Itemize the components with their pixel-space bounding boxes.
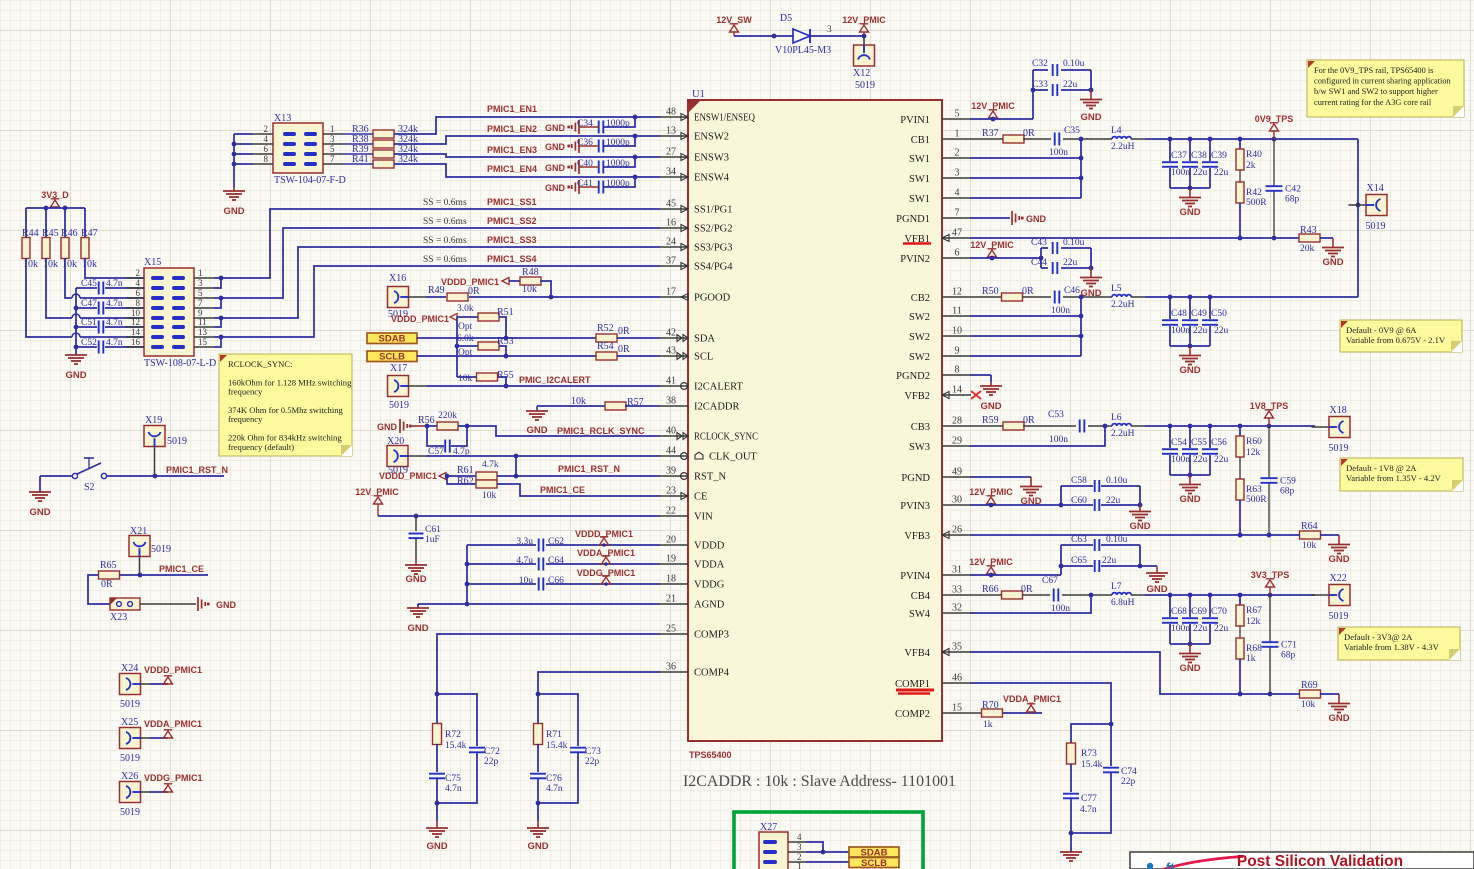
svg-text:PMIC1_CE: PMIC1_CE bbox=[159, 564, 204, 574]
svg-text:PGND: PGND bbox=[901, 473, 930, 484]
svg-text:3: 3 bbox=[198, 278, 203, 288]
svg-text:5: 5 bbox=[198, 288, 203, 298]
svg-text:30: 30 bbox=[952, 495, 962, 506]
svg-text:8: 8 bbox=[264, 154, 269, 164]
svg-text:C48: C48 bbox=[1171, 309, 1187, 319]
svg-text:VDDG_PMIC1: VDDG_PMIC1 bbox=[144, 773, 203, 783]
svg-text:22u: 22u bbox=[1193, 455, 1208, 465]
svg-text:R59: R59 bbox=[982, 415, 999, 426]
svg-text:23: 23 bbox=[666, 486, 676, 497]
svg-text:PMIC1_EN3: PMIC1_EN3 bbox=[487, 145, 537, 155]
svg-text:6: 6 bbox=[264, 144, 269, 154]
svg-text:SCLB: SCLB bbox=[861, 858, 887, 869]
svg-text:3.3u: 3.3u bbox=[516, 537, 533, 547]
svg-text:5019: 5019 bbox=[1329, 611, 1349, 622]
svg-text:45: 45 bbox=[666, 199, 676, 210]
svg-text:PMIC_I2CALERT: PMIC_I2CALERT bbox=[519, 375, 591, 385]
svg-text:PVIN4: PVIN4 bbox=[900, 571, 931, 582]
svg-text:C54: C54 bbox=[1171, 438, 1187, 448]
svg-text:35: 35 bbox=[952, 642, 962, 653]
svg-text:C46: C46 bbox=[1064, 286, 1080, 296]
svg-text:C41: C41 bbox=[577, 179, 593, 189]
svg-text:GND: GND bbox=[526, 425, 547, 436]
svg-text:R66: R66 bbox=[982, 584, 999, 595]
svg-text:2k: 2k bbox=[1246, 161, 1256, 171]
svg-text:I2CADDR : 10k : Slave Address-: I2CADDR : 10k : Slave Address- 1101001 bbox=[683, 773, 956, 790]
svg-text:configured in current sharing: configured in current sharing applicatio… bbox=[1314, 77, 1452, 86]
svg-text:PMIC1_RCLK_SYNC: PMIC1_RCLK_SYNC bbox=[557, 426, 645, 436]
svg-text:SS4/PG4: SS4/PG4 bbox=[694, 262, 733, 273]
svg-text:16: 16 bbox=[666, 218, 676, 229]
svg-text:VDDA_PMIC1: VDDA_PMIC1 bbox=[1003, 694, 1061, 704]
svg-text:R52: R52 bbox=[597, 323, 614, 334]
svg-text:22u: 22u bbox=[1214, 168, 1229, 178]
svg-text:CB3: CB3 bbox=[911, 422, 930, 433]
svg-text:frequency: frequency bbox=[228, 387, 263, 397]
svg-text:22u: 22u bbox=[1214, 326, 1229, 336]
svg-text:C64: C64 bbox=[548, 556, 564, 566]
svg-text:15.4k: 15.4k bbox=[1081, 760, 1103, 770]
svg-text:VIN: VIN bbox=[694, 512, 713, 523]
svg-text:1k: 1k bbox=[983, 720, 993, 730]
svg-text:15: 15 bbox=[952, 703, 962, 714]
svg-text:C72: C72 bbox=[484, 747, 500, 757]
svg-text:SW2: SW2 bbox=[909, 312, 930, 323]
svg-text:COMP1: COMP1 bbox=[895, 679, 930, 690]
svg-text:22p: 22p bbox=[585, 757, 600, 767]
svg-text:GND: GND bbox=[65, 370, 86, 381]
svg-text:C66: C66 bbox=[548, 576, 564, 586]
svg-text:GND: GND bbox=[1328, 713, 1349, 724]
svg-text:19: 19 bbox=[666, 554, 676, 565]
svg-text:4.7n: 4.7n bbox=[106, 299, 123, 309]
svg-text:CB2: CB2 bbox=[911, 293, 930, 304]
svg-text:R48: R48 bbox=[522, 267, 539, 278]
svg-text:1: 1 bbox=[198, 268, 203, 278]
svg-text:3: 3 bbox=[330, 134, 335, 144]
svg-text:13: 13 bbox=[666, 126, 676, 137]
svg-text:PVIN3: PVIN3 bbox=[900, 501, 930, 512]
svg-text:R45: R45 bbox=[42, 228, 59, 239]
svg-text:X26: X26 bbox=[121, 771, 138, 782]
svg-text:VDDA: VDDA bbox=[694, 560, 725, 571]
svg-text:32: 32 bbox=[952, 603, 962, 614]
svg-text:COMP2: COMP2 bbox=[895, 709, 930, 720]
svg-text:38: 38 bbox=[666, 396, 676, 407]
svg-text:29: 29 bbox=[952, 436, 962, 447]
svg-text:1: 1 bbox=[797, 861, 802, 869]
svg-text:5019: 5019 bbox=[120, 699, 140, 710]
svg-text:5019: 5019 bbox=[855, 80, 875, 91]
svg-text:21: 21 bbox=[666, 594, 676, 605]
svg-text:SW1: SW1 bbox=[909, 174, 930, 185]
svg-text:Variable from 1.38V - 4.3V: Variable from 1.38V - 4.3V bbox=[1344, 642, 1440, 652]
svg-text:ENSW3: ENSW3 bbox=[694, 153, 729, 164]
svg-text:20: 20 bbox=[666, 535, 676, 546]
svg-text:For the 0V9_TPS rail, TPS65400: For the 0V9_TPS rail, TPS65400 is bbox=[1314, 66, 1433, 75]
svg-text:3: 3 bbox=[827, 25, 832, 35]
svg-text:X18: X18 bbox=[1330, 405, 1347, 416]
svg-text:Opt: Opt bbox=[458, 322, 473, 332]
svg-text:22p: 22p bbox=[484, 757, 499, 767]
svg-text:ft: ft bbox=[1166, 860, 1175, 869]
svg-text:40: 40 bbox=[666, 426, 676, 437]
svg-text:22u: 22u bbox=[1193, 168, 1208, 178]
svg-text:34: 34 bbox=[666, 167, 676, 178]
svg-text:X15: X15 bbox=[144, 257, 161, 268]
svg-text:4.7k: 4.7k bbox=[482, 460, 499, 470]
svg-text:6: 6 bbox=[136, 288, 141, 298]
svg-text:22u: 22u bbox=[1214, 455, 1229, 465]
svg-text:SS = 0.6ms: SS = 0.6ms bbox=[423, 217, 467, 227]
svg-text:C47: C47 bbox=[81, 299, 97, 309]
svg-text:X19: X19 bbox=[145, 415, 162, 426]
svg-text:SS1/PG1: SS1/PG1 bbox=[694, 205, 733, 216]
svg-text:ENSW1/ENSEQ: ENSW1/ENSEQ bbox=[694, 113, 755, 124]
svg-text:100n: 100n bbox=[1051, 306, 1070, 316]
svg-text:VDDD_PMIC1: VDDD_PMIC1 bbox=[379, 471, 437, 481]
svg-text:VDDD_PMIC1: VDDD_PMIC1 bbox=[144, 665, 202, 675]
svg-text:R42: R42 bbox=[1246, 188, 1262, 198]
svg-text:C63: C63 bbox=[1071, 535, 1087, 545]
svg-text:R68: R68 bbox=[1246, 644, 1262, 654]
svg-text:9: 9 bbox=[955, 346, 960, 357]
svg-text:5: 5 bbox=[955, 109, 960, 120]
svg-text:10k: 10k bbox=[458, 374, 473, 384]
svg-text:25: 25 bbox=[666, 624, 676, 635]
svg-text:C71: C71 bbox=[1281, 641, 1297, 651]
svg-text:5019: 5019 bbox=[1366, 221, 1386, 232]
svg-text:12k: 12k bbox=[1246, 448, 1261, 458]
svg-text:CE: CE bbox=[694, 492, 707, 503]
svg-text:X14: X14 bbox=[1367, 183, 1384, 194]
svg-text:X20: X20 bbox=[387, 436, 404, 447]
svg-text:GND: GND bbox=[1080, 112, 1101, 123]
svg-text:31: 31 bbox=[952, 565, 962, 576]
svg-text:GND: GND bbox=[216, 600, 237, 610]
svg-text:C69: C69 bbox=[1191, 607, 1207, 617]
svg-text:13: 13 bbox=[198, 327, 208, 337]
svg-text:C42: C42 bbox=[1285, 185, 1301, 195]
svg-text:3.0k: 3.0k bbox=[457, 304, 474, 314]
svg-text:R63: R63 bbox=[1246, 485, 1262, 495]
svg-text:47: 47 bbox=[952, 228, 962, 239]
svg-text:28: 28 bbox=[952, 416, 962, 427]
svg-text:GND: GND bbox=[426, 841, 447, 852]
svg-text:R54: R54 bbox=[597, 341, 614, 352]
svg-text:Default - 1V8 @ 2A: Default - 1V8 @ 2A bbox=[1346, 463, 1417, 473]
svg-text:10u: 10u bbox=[519, 576, 534, 586]
svg-text:100n: 100n bbox=[1049, 435, 1068, 445]
svg-text:0R: 0R bbox=[1021, 584, 1033, 595]
svg-text:X17: X17 bbox=[390, 363, 407, 374]
svg-text:SCLB: SCLB bbox=[379, 352, 405, 363]
svg-text:X23: X23 bbox=[110, 612, 127, 623]
svg-text:4: 4 bbox=[955, 188, 960, 199]
svg-text:CB1: CB1 bbox=[911, 135, 930, 146]
svg-text:TSW-108-07-L-D: TSW-108-07-L-D bbox=[144, 358, 216, 369]
svg-text:2.2uH: 2.2uH bbox=[1111, 142, 1135, 152]
svg-text:C51: C51 bbox=[81, 318, 97, 328]
svg-text:L6: L6 bbox=[1111, 413, 1122, 423]
svg-text:RST_N: RST_N bbox=[694, 472, 727, 483]
svg-text:68p: 68p bbox=[1285, 195, 1300, 205]
svg-text:C77: C77 bbox=[1081, 794, 1097, 804]
svg-text:C52: C52 bbox=[81, 338, 97, 348]
svg-text:C75: C75 bbox=[445, 774, 461, 784]
svg-text:C62: C62 bbox=[548, 537, 564, 547]
svg-text:GND: GND bbox=[377, 422, 398, 432]
svg-text:Variable from 0.675V - 2.1V: Variable from 0.675V - 2.1V bbox=[1346, 335, 1446, 345]
svg-text:PMIC1_SS1: PMIC1_SS1 bbox=[487, 197, 537, 207]
svg-text:36: 36 bbox=[666, 662, 676, 673]
svg-text:C74: C74 bbox=[1121, 767, 1137, 777]
svg-text:R40: R40 bbox=[1246, 150, 1262, 160]
svg-text:5019: 5019 bbox=[120, 807, 140, 818]
svg-text:SS = 0.6ms: SS = 0.6ms bbox=[423, 255, 467, 265]
svg-text:10k: 10k bbox=[482, 491, 497, 501]
svg-text:68p: 68p bbox=[1281, 651, 1296, 661]
svg-text:8: 8 bbox=[955, 365, 960, 376]
svg-text:PVIN2: PVIN2 bbox=[900, 254, 930, 265]
svg-text:5: 5 bbox=[330, 144, 335, 154]
svg-text:12: 12 bbox=[131, 317, 140, 327]
svg-text:PMIC1_SS4: PMIC1_SS4 bbox=[487, 254, 537, 264]
svg-text:33: 33 bbox=[952, 585, 962, 596]
svg-text:4: 4 bbox=[797, 832, 802, 842]
svg-text:37: 37 bbox=[666, 256, 676, 267]
svg-text:PMIC1_RST_N: PMIC1_RST_N bbox=[558, 464, 620, 474]
svg-text:PGND2: PGND2 bbox=[896, 371, 930, 382]
svg-text:GND: GND bbox=[405, 574, 426, 585]
svg-text:ENSW2: ENSW2 bbox=[694, 132, 729, 143]
svg-text:7: 7 bbox=[330, 154, 335, 164]
svg-text:X21: X21 bbox=[130, 526, 147, 537]
svg-text:3: 3 bbox=[955, 168, 960, 179]
svg-text:PMIC1_EN2: PMIC1_EN2 bbox=[487, 124, 537, 134]
svg-text:R37: R37 bbox=[982, 128, 999, 139]
svg-text:SCL: SCL bbox=[694, 352, 713, 363]
svg-text:SDA: SDA bbox=[694, 334, 715, 345]
svg-text:VDDA_PMIC1: VDDA_PMIC1 bbox=[144, 719, 202, 729]
svg-text:PGOOD: PGOOD bbox=[694, 293, 731, 304]
svg-text:5019: 5019 bbox=[167, 436, 187, 447]
svg-text:68p: 68p bbox=[1280, 487, 1295, 497]
svg-text:C68: C68 bbox=[1171, 607, 1187, 617]
svg-text:TPS65400: TPS65400 bbox=[689, 750, 732, 760]
svg-text:C76: C76 bbox=[546, 774, 562, 784]
svg-text:C61: C61 bbox=[425, 525, 441, 535]
svg-text:C37: C37 bbox=[1171, 151, 1187, 161]
svg-text:1: 1 bbox=[330, 124, 335, 134]
svg-text:4: 4 bbox=[136, 278, 141, 288]
svg-text:4.7n: 4.7n bbox=[546, 784, 563, 794]
svg-text:SS = 0.6ms: SS = 0.6ms bbox=[423, 236, 467, 246]
svg-text:R71: R71 bbox=[546, 730, 562, 740]
svg-text:R73: R73 bbox=[1081, 749, 1097, 759]
svg-text:CB4: CB4 bbox=[911, 591, 931, 602]
svg-text:22u: 22u bbox=[1102, 556, 1117, 566]
svg-text:22u: 22u bbox=[1106, 496, 1121, 506]
svg-text:SW4: SW4 bbox=[909, 609, 931, 620]
svg-text:GND: GND bbox=[1322, 257, 1343, 268]
svg-text:C44: C44 bbox=[1031, 258, 1047, 268]
svg-text:GND: GND bbox=[1179, 494, 1200, 505]
svg-text:0.10u: 0.10u bbox=[1106, 535, 1128, 545]
svg-text:1000p: 1000p bbox=[606, 179, 630, 189]
svg-text:R69: R69 bbox=[1301, 680, 1318, 691]
svg-text:500R: 500R bbox=[1246, 495, 1267, 505]
svg-text:frequency (default): frequency (default) bbox=[228, 442, 294, 452]
svg-text:C56: C56 bbox=[1211, 438, 1227, 448]
svg-text:C43: C43 bbox=[1031, 238, 1047, 248]
svg-text:4.7n: 4.7n bbox=[106, 338, 123, 348]
svg-text:2.2uH: 2.2uH bbox=[1111, 300, 1135, 310]
svg-text:22: 22 bbox=[666, 506, 676, 517]
svg-text:10k: 10k bbox=[522, 284, 537, 295]
svg-text:R44: R44 bbox=[22, 228, 39, 239]
svg-text:39: 39 bbox=[666, 466, 676, 477]
svg-text:X16: X16 bbox=[389, 273, 406, 284]
svg-text:VDDD_PMIC1: VDDD_PMIC1 bbox=[391, 314, 449, 324]
svg-text:SDAB: SDAB bbox=[379, 334, 406, 345]
svg-text:16: 16 bbox=[131, 337, 141, 347]
svg-text:18: 18 bbox=[666, 574, 676, 585]
svg-text:500R: 500R bbox=[1246, 198, 1267, 208]
svg-text:GND: GND bbox=[527, 841, 548, 852]
svg-text:R62: R62 bbox=[457, 476, 474, 487]
svg-text:S2: S2 bbox=[84, 482, 95, 493]
svg-text:1000p: 1000p bbox=[606, 159, 630, 169]
svg-text:R67: R67 bbox=[1246, 606, 1262, 616]
svg-text:I2CALERT: I2CALERT bbox=[694, 382, 744, 393]
svg-text:C34: C34 bbox=[577, 119, 593, 129]
svg-text:4.7n: 4.7n bbox=[106, 318, 123, 328]
svg-text:27: 27 bbox=[666, 147, 676, 158]
svg-text:X24: X24 bbox=[121, 663, 138, 674]
svg-text:2.2uH: 2.2uH bbox=[1111, 429, 1135, 439]
svg-text:X13: X13 bbox=[274, 113, 291, 124]
svg-text:4.7n: 4.7n bbox=[106, 279, 123, 289]
svg-text:RCLOCK_SYNC: RCLOCK_SYNC bbox=[694, 432, 758, 443]
svg-text:VDDD_PMIC1: VDDD_PMIC1 bbox=[441, 277, 499, 287]
svg-text:PMIC1_CE: PMIC1_CE bbox=[540, 485, 585, 495]
svg-text:R47: R47 bbox=[81, 228, 98, 239]
svg-text:C49: C49 bbox=[1191, 309, 1207, 319]
svg-text:GND: GND bbox=[1026, 214, 1047, 224]
svg-text:b/w SW1 and SW2 to support hig: b/w SW1 and SW2 to support higher bbox=[1314, 87, 1438, 96]
svg-text:PMIC1_SS2: PMIC1_SS2 bbox=[487, 216, 537, 226]
svg-text:GND: GND bbox=[407, 623, 428, 634]
svg-text:22u: 22u bbox=[1193, 326, 1208, 336]
svg-text:U1: U1 bbox=[692, 89, 705, 100]
svg-text:22u: 22u bbox=[1063, 80, 1078, 90]
svg-text:C33: C33 bbox=[1032, 80, 1048, 90]
svg-text:20k: 20k bbox=[1300, 244, 1315, 254]
svg-text:C58: C58 bbox=[1071, 476, 1087, 486]
svg-text:7: 7 bbox=[198, 298, 203, 308]
svg-text:PMIC1_RST_N: PMIC1_RST_N bbox=[166, 465, 228, 475]
svg-text:0R: 0R bbox=[1023, 128, 1035, 139]
svg-text:100n: 100n bbox=[1171, 326, 1190, 336]
svg-text:14: 14 bbox=[952, 385, 962, 396]
svg-text:RCLOCK_SYNC:: RCLOCK_SYNC: bbox=[228, 359, 292, 369]
svg-text:GND: GND bbox=[980, 401, 1001, 412]
svg-text:GND: GND bbox=[1179, 207, 1200, 218]
svg-text:R50: R50 bbox=[982, 286, 999, 297]
svg-text:5019: 5019 bbox=[120, 753, 140, 764]
svg-text:4.7n: 4.7n bbox=[1080, 805, 1097, 815]
svg-text:2: 2 bbox=[955, 148, 960, 159]
svg-text:17: 17 bbox=[666, 287, 676, 298]
svg-text:COMP4: COMP4 bbox=[694, 668, 730, 679]
svg-text:L5: L5 bbox=[1111, 284, 1122, 294]
svg-text:GND: GND bbox=[29, 507, 50, 518]
svg-text:X12: X12 bbox=[853, 68, 870, 79]
svg-text:0R: 0R bbox=[468, 286, 480, 297]
svg-text:49: 49 bbox=[952, 467, 962, 478]
svg-text:11: 11 bbox=[198, 317, 207, 327]
svg-text:6.8uH: 6.8uH bbox=[1111, 598, 1135, 608]
svg-text:11: 11 bbox=[952, 306, 962, 317]
svg-text:C70: C70 bbox=[1211, 607, 1227, 617]
svg-text:8: 8 bbox=[136, 298, 141, 308]
svg-text:R64: R64 bbox=[1301, 521, 1318, 532]
svg-text:GND: GND bbox=[1179, 365, 1200, 376]
svg-text:GND: GND bbox=[1146, 584, 1167, 595]
svg-text:TSW-104-07-F-D: TSW-104-07-F-D bbox=[274, 175, 346, 186]
svg-text:1: 1 bbox=[955, 129, 960, 140]
svg-text:PVIN1: PVIN1 bbox=[900, 115, 930, 126]
svg-text:C45: C45 bbox=[81, 279, 97, 289]
svg-text:5019: 5019 bbox=[151, 544, 171, 555]
svg-text:C53: C53 bbox=[1048, 410, 1064, 420]
svg-text:Opt: Opt bbox=[458, 348, 473, 358]
svg-text:0R: 0R bbox=[101, 579, 113, 590]
svg-text:2: 2 bbox=[264, 124, 269, 134]
svg-text:PGND1: PGND1 bbox=[896, 214, 930, 225]
svg-text:1000p: 1000p bbox=[606, 138, 630, 148]
svg-text:L7: L7 bbox=[1111, 582, 1122, 592]
svg-text:current rating for the A3G cor: current rating for the A3G core rail bbox=[1314, 98, 1432, 107]
svg-text:PMIC1_EN1: PMIC1_EN1 bbox=[487, 104, 537, 114]
svg-text:24: 24 bbox=[666, 237, 676, 248]
svg-text:C40: C40 bbox=[577, 159, 593, 169]
svg-text:44: 44 bbox=[666, 446, 676, 457]
svg-text:frequency: frequency bbox=[228, 414, 263, 424]
svg-text:14: 14 bbox=[131, 327, 141, 337]
svg-text:AGND: AGND bbox=[694, 600, 725, 611]
svg-text:22u: 22u bbox=[1193, 624, 1208, 634]
svg-text:GND: GND bbox=[545, 163, 566, 173]
svg-text:GND: GND bbox=[223, 206, 244, 217]
svg-text:PMIC1_SS3: PMIC1_SS3 bbox=[487, 235, 537, 245]
svg-text:CLK_OUT: CLK_OUT bbox=[709, 452, 757, 463]
svg-text:R72: R72 bbox=[445, 730, 461, 740]
svg-text:V10PL45-M3: V10PL45-M3 bbox=[775, 45, 831, 56]
svg-text:GND: GND bbox=[1328, 554, 1349, 565]
svg-text:41: 41 bbox=[666, 376, 676, 387]
svg-text:22p: 22p bbox=[1121, 777, 1136, 787]
svg-text:C59: C59 bbox=[1280, 477, 1296, 487]
svg-text:R46: R46 bbox=[61, 228, 78, 239]
svg-text:SW3: SW3 bbox=[909, 442, 930, 453]
svg-text:0R: 0R bbox=[1023, 415, 1035, 426]
svg-text:100n: 100n bbox=[1171, 624, 1190, 634]
svg-text:SW1: SW1 bbox=[909, 154, 930, 165]
svg-text:X25: X25 bbox=[121, 717, 138, 728]
svg-text:12k: 12k bbox=[1246, 617, 1261, 627]
